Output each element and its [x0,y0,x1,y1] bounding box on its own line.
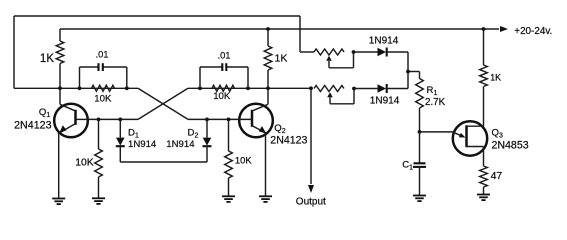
wire Q1 collector bus [14,87,138,89]
wire Q2 emitter [265,133,267,196]
resistor 10K (Q1 base to ground) [98,119,100,149]
capacitor C1 [419,132,421,163]
node 1K / collector [58,86,62,90]
ground C1 [419,195,421,197]
wire diode cathode link [120,161,207,163]
potentiometer bottom (frequency trim) [314,86,344,92]
wire Q1 base line [88,118,138,120]
potentiometer top (frequency trim) [314,49,344,55]
ground 47 [483,194,485,196]
svg-text:R1: R1 [427,85,438,97]
node right box right [246,86,250,90]
resistor 10K (Q2 base to ground) [228,119,230,151]
capacitor C .01 (left coupling) [79,67,81,88]
svg-text:2.7K: 2.7K [425,97,446,108]
wire cross diagonal B (Q1 base to right box) [138,88,188,119]
transistor Q3 (UJT 2N4853) [453,121,487,155]
wire diode mix vertical [407,52,409,89]
supply rail +20-24v [60,28,499,30]
resistor 47 (Q3 B1) [483,147,485,167]
svg-text:Q1: Q1 [39,107,50,119]
svg-text:2N4123: 2N4123 [14,119,51,131]
svg-text:D2: D2 [188,128,199,140]
diode 1N914 top [378,48,387,57]
node top pot wiper tie [352,50,356,54]
node output tap [309,86,313,90]
svg-text:1N914: 1N914 [369,36,399,47]
capacitor C .01 (right coupling) [199,67,201,88]
wire bottom pot to diode [354,88,378,90]
node base / 10K [97,118,101,122]
svg-text:10K: 10K [94,93,112,104]
node mix junction [406,70,410,74]
resistor R1 2.7K [419,72,421,79]
node supply-rail / 1K junction [266,27,270,31]
svg-text:.01: .01 [217,49,230,60]
svg-text:D1: D1 [128,127,139,139]
node bottom pot wiper tie [352,87,356,91]
diode D1 1N914 [119,119,121,137]
svg-text:1K: 1K [275,53,288,65]
svg-text:10K: 10K [75,158,94,169]
wire output [310,88,312,184]
svg-text:47: 47 [491,170,503,182]
resistor 1K (Q3 B2 supply) [483,29,485,65]
svg-text:Output: Output [296,196,326,207]
svg-text:1N914: 1N914 [128,139,157,150]
diode 1N914 bottom [378,84,387,93]
transistor Q1 [54,104,88,138]
wire Q1 collector to top pot [299,16,301,52]
svg-text:10K: 10K [213,91,231,102]
ground left 10K [98,197,100,199]
svg-text:.01: .01 [95,48,108,59]
node 1K / Q2 collector [266,86,270,90]
wire cross diagonal A (left box to Q2 base) [138,88,188,119]
node right box left [198,86,202,90]
wire left vertical feedback drop [13,16,15,88]
wire top feedback line (Q1 collector to timing pots) [14,15,300,17]
svg-text:1N914: 1N914 [370,95,400,106]
resistor 1K (Q2 collector load) [267,29,269,46]
ground Q2 emitter [265,195,267,197]
node cap box right [125,86,129,90]
node base / D1 [118,118,122,122]
svg-text:Q3: Q3 [492,127,503,139]
svg-text:2N4853: 2N4853 [492,140,529,152]
wire top pot to diode [354,51,378,53]
ground Q1 emitter [58,198,60,200]
svg-text:1K: 1K [490,72,501,82]
svg-text:10K: 10K [235,155,252,166]
svg-text:1K: 1K [40,53,54,65]
svg-text:2N4123: 2N4123 [270,134,307,146]
svg-text:Q2: Q2 [274,123,285,135]
svg-text:+20-24v.: +20-24v. [514,26,552,37]
node supply-rail / Q3 branch junction [482,27,486,31]
wire Q1 emitter [58,133,60,199]
node Q2 base / 10K [227,118,231,122]
node R1 / C1 / emitter [418,130,422,134]
resistor 10K (left coupling) [92,85,115,91]
transistor Q2 [239,104,273,138]
diode D2 1N914 [206,119,208,137]
node cap box left [78,86,82,90]
ground right 10K [228,195,230,197]
wire emitter feed to Q3 [420,131,453,133]
resistor 10K (right coupling) [212,85,235,91]
svg-text:C1: C1 [402,160,413,172]
wire Q2 collector bus [188,87,311,89]
svg-text:1N914: 1N914 [166,139,195,150]
node Q2 base / D2 [205,118,209,122]
resistor 1K (Q1 collector load) [59,29,61,41]
